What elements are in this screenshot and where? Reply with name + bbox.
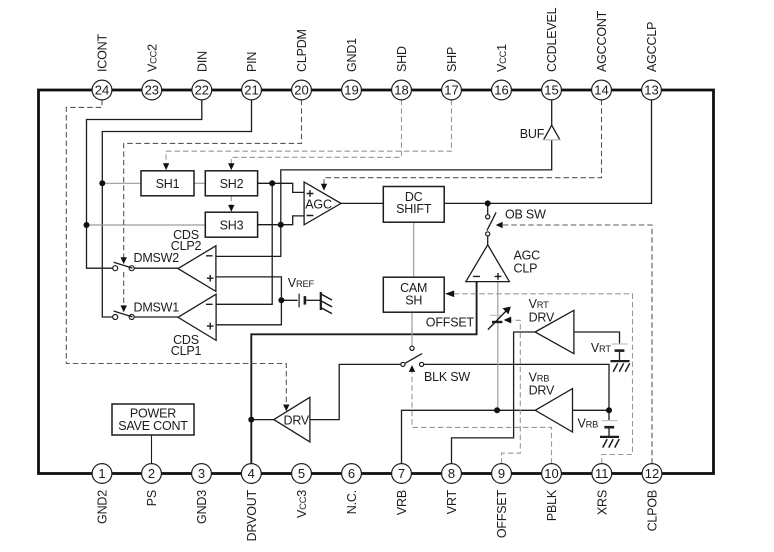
node DRVOUT xyxy=(248,417,254,423)
wire DRV output to pin4 node xyxy=(251,419,273,421)
chip body border xyxy=(39,90,714,474)
pin 16 VCC1 xyxy=(492,80,512,100)
wire capacitor to ground xyxy=(306,299,320,301)
arrowhead ICONT into DRV xyxy=(283,405,289,412)
svg-text:8: 8 xyxy=(448,466,455,481)
svg-text:DMSW2: DMSW2 xyxy=(134,251,180,265)
wire dashed OFFSET pin9 to offset adjust xyxy=(502,320,521,464)
block POWER SAVE CONT xyxy=(112,404,194,435)
block CAM SH xyxy=(383,277,444,312)
wire VRB DRV output to VRB node xyxy=(573,409,610,411)
wire CAM SH to BLK SW upper contact (gray) xyxy=(411,312,413,346)
pin 17 SHP xyxy=(442,80,462,100)
svg-text:20: 20 xyxy=(294,82,308,97)
svg-text:13: 13 xyxy=(644,82,658,97)
wire CDS CLP2 plus to VREF node to CDS CLP1 plus xyxy=(216,277,282,325)
pin 12 CLPOB xyxy=(642,464,662,484)
amplifier AGC xyxy=(304,182,341,225)
capacitor VRB xyxy=(602,420,618,422)
svg-text:VCC1: VCC1 xyxy=(495,44,509,72)
wire pin8 VRT to VRT DRV input xyxy=(452,332,536,464)
svg-text:19: 19 xyxy=(344,82,358,97)
node PIN tap xyxy=(99,180,105,186)
switch OB SW xyxy=(486,215,490,219)
pin 3 GND3 xyxy=(192,464,212,484)
arrowhead CLPDM into DMSW1 xyxy=(121,305,127,312)
svg-text:DRV: DRV xyxy=(529,311,555,325)
svg-text:CLPOB: CLPOB xyxy=(646,490,660,531)
svg-text:OFFSET: OFFSET xyxy=(495,489,509,538)
wire SH3 output to AGC minus input xyxy=(258,216,305,225)
capacitor VREF xyxy=(298,294,300,308)
svg-text:SHD: SHD xyxy=(395,46,409,72)
svg-text:VRT: VRT xyxy=(591,341,611,355)
svg-text:VRB: VRB xyxy=(529,370,550,384)
svg-text:24: 24 xyxy=(95,82,109,97)
svg-text:OB SW: OB SW xyxy=(505,208,546,222)
arrowhead CLPOB into OB SW xyxy=(496,222,503,228)
block SH2 xyxy=(205,171,257,196)
svg-text:12: 12 xyxy=(645,466,659,481)
offset adjust element xyxy=(490,314,502,316)
wire OB SW bottom to AGC CLP apex xyxy=(487,236,489,245)
wire dashed ICONT control to DRV xyxy=(66,100,286,405)
svg-text:CLP1: CLP1 xyxy=(171,344,202,358)
svg-text:4: 4 xyxy=(248,466,255,481)
svg-text:23: 23 xyxy=(145,82,159,97)
svg-text:AGC: AGC xyxy=(305,198,332,212)
pin 23 VCC2 xyxy=(142,80,162,100)
wire dashed SHD control to SH2 xyxy=(231,100,401,164)
svg-text:VRT: VRT xyxy=(445,489,459,514)
wire SH2 output to AGC + input xyxy=(258,183,305,192)
pin 20 CLPDM xyxy=(292,80,312,100)
wire SH1 to SH2 (gray) xyxy=(194,182,205,184)
svg-text:VRT: VRT xyxy=(529,297,549,311)
pin 21 PIN xyxy=(242,80,262,100)
ground VREF xyxy=(320,292,322,310)
svg-text:VCC3: VCC3 xyxy=(295,490,309,518)
pin 13 AGCCLP xyxy=(642,80,662,100)
wire AGC CLP minus input down and left to pin4 DRVOUT line xyxy=(251,282,476,464)
svg-text:14: 14 xyxy=(594,82,608,97)
svg-text:AGCCONT: AGCCONT xyxy=(595,10,609,72)
wire dashed CLPDM control to DMSW2 and DMSW1 xyxy=(124,100,302,306)
pin 4 DRVOUT xyxy=(241,464,261,484)
wire AGC output to DC SHIFT xyxy=(341,202,384,204)
svg-text:GND1: GND1 xyxy=(345,38,359,72)
wire BUF output down-left to CDS CLP2 minus input xyxy=(216,140,552,257)
wire SH2 output node down to CDS CLP1 minus input xyxy=(216,183,272,304)
svg-text:17: 17 xyxy=(444,82,458,97)
node AGC CLP plus to VRB xyxy=(494,407,500,413)
svg-text:1: 1 xyxy=(98,466,105,481)
svg-text:GND3: GND3 xyxy=(195,490,209,524)
wire node tap to SH3 input (gray) xyxy=(87,224,206,226)
arrowhead SHD into SH2 xyxy=(228,163,234,170)
wire DC SHIFT to CAM SH (gray) xyxy=(413,222,415,277)
svg-text:2: 2 xyxy=(148,466,155,481)
arrowhead SHP into SH1 xyxy=(163,163,169,170)
wire VREF node to capacitor xyxy=(281,299,297,301)
pin 2 PS xyxy=(142,464,162,484)
svg-text:ICONT: ICONT xyxy=(96,34,110,72)
svg-text:CCDLEVEL: CCDLEVEL xyxy=(545,7,559,72)
capacitor VRT xyxy=(612,343,628,345)
svg-text:GND2: GND2 xyxy=(96,490,110,524)
wire node tap to SH1 input (gray) xyxy=(102,182,141,184)
node DIN tap xyxy=(84,222,90,228)
svg-text:10: 10 xyxy=(544,466,558,481)
wire POWER SAVE CONT to pin2 PS xyxy=(151,435,153,464)
svg-text:SH3: SH3 xyxy=(220,218,244,232)
node SH3 output xyxy=(278,222,284,228)
arrowhead XRS into CAM SH xyxy=(445,291,454,298)
pin 11 XRS xyxy=(592,464,612,484)
wire pin7 VRB to VRB DRV input xyxy=(402,410,536,464)
node SH2 output xyxy=(269,180,275,186)
switch BLK SW xyxy=(401,362,405,366)
svg-text:7: 7 xyxy=(398,466,405,481)
pin 8 VRT xyxy=(442,464,462,484)
wire DMSW2 right contact to CDS CLP2 apex xyxy=(134,267,178,269)
svg-text:PS: PS xyxy=(145,490,159,506)
svg-text:DRV: DRV xyxy=(284,414,310,428)
arrowhead into SH3 xyxy=(228,205,234,212)
block SH1 xyxy=(141,171,194,196)
wire DC SHIFT to pin13 AGCCLP xyxy=(444,100,651,204)
svg-text:5: 5 xyxy=(298,466,305,481)
svg-text:OFFSET: OFFSET xyxy=(426,316,475,330)
wire DRV input from BLK SW left contact xyxy=(310,364,401,419)
pin 15 CCDLEVEL xyxy=(542,80,562,100)
svg-text:DIN: DIN xyxy=(195,51,209,72)
pin 5 VCC3 xyxy=(292,464,312,484)
amplifier DRV xyxy=(274,397,310,442)
svg-text:VCC2: VCC2 xyxy=(145,44,159,72)
svg-text:9: 9 xyxy=(498,466,505,481)
arrowhead OFFSET into offset adjust xyxy=(504,317,512,324)
wire VRT DRV output to capacitor xyxy=(574,332,620,360)
arrowhead AGCCONT into AGC xyxy=(321,184,327,191)
wire dashed CLPOB pin12 to OB SW xyxy=(502,225,653,464)
pin 22 DIN xyxy=(192,80,212,100)
svg-text:CLPDM: CLPDM xyxy=(295,29,309,72)
wire VRB node to capacitor and ground xyxy=(608,410,610,436)
svg-text:VREF: VREF xyxy=(288,276,315,290)
pin 7 VRB xyxy=(392,464,412,484)
svg-text:SHIFT: SHIFT xyxy=(396,202,432,216)
wire dashed PBLK pin10 to BLK SW xyxy=(412,372,552,464)
pin 14 AGCCONT xyxy=(592,80,612,100)
svg-text:SAVE CONT: SAVE CONT xyxy=(118,419,188,433)
svg-text:16: 16 xyxy=(494,82,508,97)
ground VRB xyxy=(600,436,619,438)
svg-text:6: 6 xyxy=(348,466,355,481)
pin 1 GND2 xyxy=(92,464,112,484)
ground VRT xyxy=(611,360,630,362)
svg-text:SHP: SHP xyxy=(445,47,459,72)
arrowhead PBLK into BLK SW xyxy=(409,365,415,372)
block SH3 xyxy=(205,212,257,237)
svg-text:BLK SW: BLK SW xyxy=(424,370,470,384)
node VRB cap xyxy=(606,407,612,413)
svg-text:SH1: SH1 xyxy=(156,177,180,191)
pin 24 ICONT xyxy=(92,80,112,100)
svg-text:18: 18 xyxy=(394,82,408,97)
pin 10 PBLK xyxy=(542,464,562,484)
wire dashed SHP control to SH1 xyxy=(166,100,451,164)
svg-text:BUF: BUF xyxy=(520,127,545,141)
amplifier VRB DRV xyxy=(535,389,572,432)
svg-text:DRVOUT: DRVOUT xyxy=(245,489,259,541)
svg-text:N.C.: N.C. xyxy=(345,490,359,514)
svg-text:CLP: CLP xyxy=(514,261,538,275)
svg-text:VRB: VRB xyxy=(395,490,409,515)
svg-text:22: 22 xyxy=(195,82,209,97)
buffer BUF xyxy=(544,125,560,140)
wire dashed AGCCONT control to AGC xyxy=(324,100,602,184)
svg-text:VRB: VRB xyxy=(578,417,599,431)
wire OB SW top stub xyxy=(487,203,489,214)
amplifier CDS CLP2 xyxy=(178,246,216,292)
svg-text:SH: SH xyxy=(405,294,422,308)
wire pin21 PIN to DMSW1 left contact xyxy=(102,100,251,317)
wire AGC CLP plus input down to VRB node (gray) xyxy=(497,282,499,411)
switch DMSW2 xyxy=(113,266,118,271)
svg-text:DRV: DRV xyxy=(529,384,555,398)
node VREF xyxy=(278,297,284,303)
switch DMSW1 xyxy=(113,315,118,320)
pin 19 GND1 xyxy=(342,80,362,100)
svg-text:PBLK: PBLK xyxy=(545,489,559,521)
svg-text:21: 21 xyxy=(244,82,258,97)
svg-text:11: 11 xyxy=(595,466,609,481)
svg-text:PIN: PIN xyxy=(245,52,259,72)
svg-text:3: 3 xyxy=(198,466,205,481)
node OB SW branch xyxy=(485,200,491,206)
wire dashed SH2 to SH3 xyxy=(230,196,232,205)
arrowhead CLPDM into DMSW2 xyxy=(121,257,127,264)
wire pin15 CCDLEVEL to BUF xyxy=(551,100,553,126)
svg-text:XRS: XRS xyxy=(595,490,609,515)
block DC SHIFT xyxy=(383,187,444,223)
wire DMSW1 right contact to CDS CLP1 apex xyxy=(134,316,178,318)
pin 6 N.C. xyxy=(342,464,362,484)
svg-text:15: 15 xyxy=(544,82,558,97)
svg-text:DMSW1: DMSW1 xyxy=(134,300,180,314)
amplifier VRT DRV xyxy=(535,310,574,353)
amplifier AGC CLP xyxy=(466,245,510,282)
amplifier CDS CLP1 xyxy=(178,294,216,340)
svg-text:AGCCLP: AGCCLP xyxy=(645,22,659,72)
wire BLK SW right contact to VRB node xyxy=(424,364,609,410)
wire pin22 DIN to DMSW2 left contact xyxy=(87,100,202,269)
pin 9 OFFSET xyxy=(492,464,512,484)
wire dashed XRS pin11 to CAM SH xyxy=(455,294,633,464)
pin 18 SHD xyxy=(392,80,412,100)
svg-text:SH2: SH2 xyxy=(220,177,244,191)
